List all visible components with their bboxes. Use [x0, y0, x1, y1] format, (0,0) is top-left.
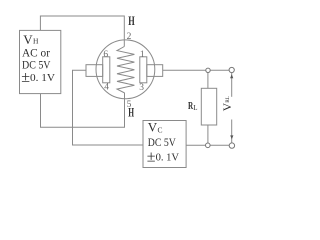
svg-text:1: 1: [140, 50, 145, 60]
svg-text:±0. 1V: ±0. 1V: [21, 69, 55, 86]
svg-text:H: H: [128, 13, 135, 28]
svg-text:6: 6: [103, 50, 108, 60]
svg-text:2: 2: [127, 32, 132, 42]
svg-text:L: L: [193, 104, 197, 112]
svg-text:3: 3: [139, 83, 144, 93]
svg-text:±0. 1V: ±0. 1V: [147, 148, 179, 165]
svg-text:4: 4: [104, 82, 109, 92]
svg-text:AC or: AC or: [22, 47, 50, 59]
svg-text:5: 5: [127, 100, 132, 110]
svg-text:DC 5V: DC 5V: [148, 137, 177, 149]
